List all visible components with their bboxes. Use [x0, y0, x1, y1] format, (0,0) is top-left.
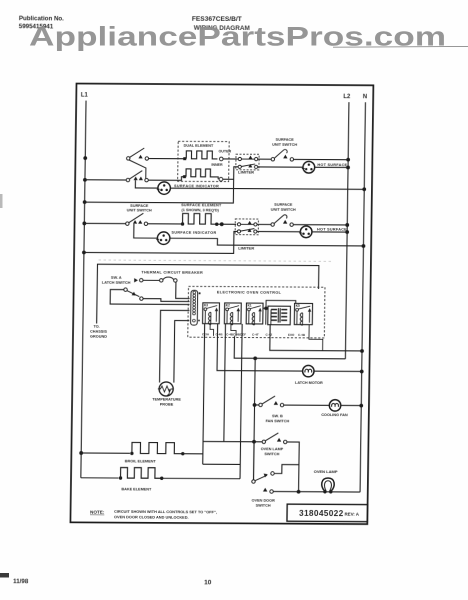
junction latch motor on N: [360, 370, 364, 374]
svg-text:SURFACE: SURFACE: [276, 138, 295, 142]
wire node down to N-feed lead: [265, 308, 267, 324]
svg-text:K3: K3: [204, 303, 208, 307]
heating element surface 2: [183, 213, 217, 224]
wire limiter 1 to switch 1b: [258, 158, 271, 160]
junction lamp drop on lamp row: [297, 490, 301, 494]
svg-text:HOT SURFACE: HOT SURFACE: [317, 228, 347, 232]
svg-text:SURFACE: SURFACE: [130, 204, 149, 208]
surface unit switch 2 contact: [126, 222, 129, 225]
junction on L1 broil wire: [79, 451, 83, 455]
wire door switch upper to lamp drop: [274, 465, 299, 474]
junction on L1 indicator 2 return: [82, 251, 86, 255]
limiter 1 upper right contact: [255, 158, 258, 161]
wire switch 2b to L2: [293, 224, 347, 226]
surface unit switch 1 upper right contact: [145, 157, 148, 160]
connector pins P1-P9: [193, 291, 196, 322]
svg-text:INNER: INNER: [211, 163, 223, 167]
limiter 2 upper arm: [241, 223, 254, 225]
wire connector pin 9 to probe lead 2: [174, 321, 189, 383]
limiter 1 lower arrow: [248, 164, 252, 167]
wire inner element to node: [215, 177, 218, 179]
junction switch 1b on L2: [346, 158, 350, 162]
relay K3: [203, 303, 220, 325]
wire inner node to return: [223, 178, 234, 180]
surface unit switch 2b left contact: [271, 223, 274, 226]
svg-text:SURFACE: SURFACE: [274, 203, 293, 207]
heating element outer: [186, 151, 217, 159]
surface unit switch 2b arrow: [283, 220, 287, 224]
wire switch 1b to L2: [294, 158, 349, 160]
svg-text:EXO: EXO: [288, 333, 295, 337]
temperature probe sensor: [158, 382, 174, 396]
svg-text:DUAL ELEMENT: DUAL ELEMENT: [184, 143, 214, 147]
relay K5: [294, 303, 312, 325]
wire latch contact to connector pin 4: [143, 299, 190, 302]
junction on L1 at surface sw 1 lower: [83, 178, 87, 182]
fan switch left contact: [259, 403, 262, 406]
wire sw2 to indicator 2: [134, 224, 158, 238]
svg-text:TEMPERATURE: TEMPERATURE: [152, 398, 181, 402]
svg-text:K5: K5: [296, 304, 300, 308]
oven lamp switch arrow: [277, 438, 281, 442]
limiter 1 upper arrow: [248, 156, 252, 159]
svg-text:SW. B: SW. B: [272, 414, 283, 418]
relay K2: [224, 303, 241, 325]
wire limiter 1 return to L1: [86, 166, 238, 203]
thermal breaker arrow: [134, 278, 138, 282]
transformer T1: [268, 306, 291, 325]
surface unit switch 1 linkage: [129, 160, 146, 179]
wire L1 to sw1 lower: [85, 179, 126, 181]
svg-text:NOTE:: NOTE:: [90, 510, 105, 515]
svg-text:SWITCH: SWITCH: [256, 503, 271, 507]
oven door switch arrow upper: [263, 474, 268, 478]
wire limiter 2 to hot surface 2: [257, 231, 300, 233]
scan smudge left edge: [0, 573, 9, 578]
wire relay lead jog b: [231, 324, 236, 336]
junction hot surface 2 on L2: [345, 230, 349, 234]
junction hot surface 1 on L2: [346, 166, 350, 170]
limiter 2 dashed enclosure: [235, 219, 258, 235]
svg-text:10: 10: [204, 579, 212, 586]
wire cooling fan to N: [341, 404, 362, 406]
thermal breaker mid contact: [160, 279, 163, 282]
wire L1 to sw2: [84, 222, 125, 224]
svg-text:K1: K1: [247, 304, 251, 308]
junction on L1 at surface sw 1 upper: [83, 156, 87, 160]
wire relay K1 lead to bake: [240, 324, 242, 479]
surface unit switch 1 upper arrow: [138, 155, 142, 159]
svg-text:LIMITER: LIMITER: [238, 169, 254, 174]
wire limiter 2 to switch 2b: [257, 223, 271, 225]
wire latch motor to N: [314, 370, 362, 372]
wire relay K3b lead to latch motor: [217, 324, 303, 371]
hot surface indicator 1 lamp: [302, 161, 315, 173]
limiter 1 upper arm: [241, 158, 254, 160]
inner element node: [219, 177, 223, 181]
broil element right node: [181, 452, 184, 455]
wire relay K5 lead jog: [309, 325, 323, 351]
svg-text:LATCH SWITCH: LATCH SWITCH: [102, 281, 131, 285]
junction element 2 output: [220, 222, 224, 226]
svg-text:CHASSIS: CHASSIS: [90, 330, 107, 334]
junction indicator 2 wire on N: [362, 244, 366, 248]
junction fan row on feed: [253, 403, 257, 407]
wire latch pivot to connector pin 5: [110, 290, 190, 305]
connector pin marker top: [199, 292, 201, 294]
cooling fan M2: [329, 400, 341, 411]
surface unit switch 1b left contact: [271, 158, 274, 161]
oven door switch pivot: [252, 480, 255, 483]
fan switch arm: [262, 396, 275, 404]
surface element 2 left node: [181, 222, 184, 225]
svg-text:N: N: [363, 94, 367, 100]
latch switch arrow: [132, 292, 137, 297]
heating element inner: [186, 169, 215, 177]
wire bake to relay K1 lead: [162, 477, 240, 479]
wire L1 to broil element: [81, 452, 130, 454]
surface indicator 2 lamp: [156, 232, 170, 244]
wire broil to relay K3 lead: [183, 453, 203, 455]
svg-text:UNIT SWITCH: UNIT SWITCH: [272, 143, 297, 147]
svg-text:PROBE: PROBE: [160, 403, 174, 407]
svg-text:L2: L2: [343, 94, 351, 100]
svg-text:C-3A: C-3A: [202, 332, 210, 336]
wire sw1 to indicator 1: [135, 180, 158, 188]
wire connector pin 7 to probe lead 1: [160, 310, 190, 382]
wire hot surface 2 to L2: [312, 231, 347, 233]
svg-text:OVEN DOOR CLOSED AND UNLOCKED.: OVEN DOOR CLOSED AND UNLOCKED.: [114, 514, 189, 519]
junction lamp row on feed: [252, 440, 256, 444]
fan switch arrow: [274, 401, 278, 405]
limiter 1 lower arm: [241, 164, 255, 167]
svg-text:C-4T: C-4T: [252, 333, 259, 337]
watermark underline right: [333, 45, 468, 48]
wire feed to fan switch: [255, 404, 259, 406]
wire N rail: [360, 102, 365, 492]
wire oven lamp row: [273, 491, 360, 494]
oven door switch lower contact: [270, 490, 273, 493]
surface unit switch 1 upper contact: [127, 157, 130, 160]
wire K1 to node: [263, 307, 266, 309]
wire limiter 1 to hot surface 1: [258, 166, 303, 168]
svg-text:OVEN LAMP: OVEN LAMP: [261, 447, 284, 451]
svg-text:11/98: 11/98: [13, 578, 29, 585]
oven door switch arrow lower: [263, 488, 267, 492]
junction transformer lead on N: [360, 349, 364, 353]
limiter 2 lower arm: [240, 229, 254, 232]
svg-text:OVEN DOOR: OVEN DOOR: [252, 499, 276, 503]
surface unit switch 1 lower arrow b: [139, 177, 143, 181]
electronic oven control dashed enclosure: [188, 286, 325, 338]
limiter 2 upper left contact: [237, 223, 240, 226]
wire fan switch to cooling fan: [284, 404, 330, 406]
junction switch 2b on L2: [345, 223, 349, 227]
wire bake feed jog: [203, 463, 241, 465]
relay K1: [246, 303, 263, 325]
surface element 2 right node: [215, 222, 218, 225]
part number box: [287, 504, 368, 522]
wire indicator 2 to N: [170, 238, 364, 246]
svg-text:318045022: 318045022: [299, 509, 344, 518]
svg-text:C-4B: C-4B: [215, 332, 223, 336]
limiter 2 lower left contact: [237, 230, 240, 233]
surface unit switch 1 lower contact: [126, 178, 129, 181]
wire chassis ground bus: [97, 264, 319, 325]
limiter 1 lower right contact: [254, 165, 257, 168]
surface unit switch 1b right contact: [290, 158, 293, 161]
wire breaker contacts: [143, 279, 160, 281]
control board connector strip: [191, 290, 198, 325]
wire element 2 to limiter 2: [217, 223, 237, 225]
limiter 1 dashed enclosure: [236, 154, 259, 170]
svg-text:SW. A: SW. A: [111, 276, 122, 280]
svg-text:OUTER: OUTER: [219, 149, 232, 153]
svg-text:DEF: DEF: [240, 332, 246, 336]
junction on L1 at surface sw 2: [82, 221, 86, 225]
wire sw2 to element 2: [148, 223, 182, 225]
wire L2 rail: [345, 102, 349, 359]
svg-text:UNIT SWITCH: UNIT SWITCH: [271, 208, 296, 212]
oven door switch upper contact: [271, 472, 274, 475]
wire relay lead jog a: [210, 324, 214, 336]
svg-text:SWITCH: SWITCH: [264, 452, 279, 456]
junction relay node: [264, 306, 268, 310]
hot surface indicator 2 lamp: [299, 226, 312, 238]
wire transformer lead to N: [270, 325, 363, 351]
schematic border frame: [70, 84, 373, 525]
outer element terminal pad left: [183, 157, 186, 160]
dual element dashed enclosure: [178, 141, 230, 181]
surface unit switch 2 right contact: [144, 222, 147, 225]
svg-text:C-4Z: C-4Z: [265, 333, 272, 337]
wire relay K2 lead to oven lamp row: [224, 324, 226, 442]
wire lamp switch to lamp drop: [286, 442, 299, 492]
heating element bake: [121, 468, 162, 479]
surface unit switch 2b arm: [274, 215, 287, 224]
limiter 1 upper left contact: [238, 157, 241, 160]
surface indicator 1 lamp: [157, 182, 171, 194]
wire L1 corner to bake element: [81, 477, 119, 479]
wire sw1 upper to dual element outer: [149, 157, 184, 159]
wire oven lamp row feed: [203, 440, 262, 442]
wire node over transformer to K5: [266, 300, 296, 308]
svg-text:FAN SWITCH: FAN SWITCH: [265, 419, 289, 423]
surface unit switch 2 arrow a: [133, 220, 137, 224]
latch switch contact: [140, 297, 143, 300]
wire oven feed drop: [254, 358, 256, 481]
svg-text:BROIL ELEMENT: BROIL ELEMENT: [125, 459, 157, 463]
svg-text:K2: K2: [226, 304, 230, 308]
thermal breaker bimetal arc: [163, 277, 174, 280]
limiter 2 upper arrow: [248, 221, 252, 224]
svg-text:C-4B: C-4B: [298, 333, 306, 337]
junction on L1 indicator 1 return: [83, 200, 87, 204]
surface unit switch 2b right contact: [290, 223, 293, 226]
surface unit switch 1b arrow: [283, 155, 287, 159]
svg-text:OVEN LAMP: OVEN LAMP: [314, 469, 338, 474]
svg-text:BAKE ELEMENT: BAKE ELEMENT: [121, 487, 152, 491]
wire sw1 lower to dual element inner: [148, 176, 184, 180]
junction indicator 1 wire on N: [362, 187, 366, 191]
wire relay K3 lead to broil: [203, 324, 205, 465]
connector pin marker bottom: [198, 320, 199, 322]
svg-text:ELECTRONIC OVEN CONTROL: ELECTRONIC OVEN CONTROL: [217, 290, 282, 294]
section separator (faint): [99, 260, 333, 261]
bake element right node: [160, 477, 163, 480]
svg-text:SURFACE ELEMENT: SURFACE ELEMENT: [181, 203, 222, 207]
fan switch right contact: [280, 403, 283, 406]
thermal breaker right contact: [174, 279, 177, 282]
wire hot surface 1 to L2: [315, 166, 348, 168]
surface unit switch 2 arrow b: [138, 220, 142, 224]
latch switch arm: [127, 291, 140, 297]
svg-text:SURFACE INDICATOR: SURFACE INDICATOR: [174, 184, 219, 188]
svg-text:LIMITER: LIMITER: [238, 246, 254, 251]
heating element broil: [132, 442, 183, 453]
surface unit switch 1 upper arm: [129, 148, 144, 158]
svg-text:UNIT SWITCH: UNIT SWITCH: [127, 208, 152, 212]
svg-text:COOLING FAN: COOLING FAN: [321, 413, 348, 417]
surface unit switch 1b arm: [274, 149, 287, 158]
svg-text:THERMAL CIRCUIT BREAKER: THERMAL CIRCUIT BREAKER: [141, 271, 203, 275]
thermal breaker left contact: [140, 279, 143, 282]
limiter 1 lower left contact: [238, 165, 241, 168]
limiter 2 lower arrow: [248, 229, 252, 232]
surface unit switch 1 lower arrow a: [134, 177, 138, 181]
surface unit switch 2 arm: [128, 213, 143, 223]
svg-text:REV: A: REV: A: [345, 511, 360, 516]
wire breaker to connector pin 3: [176, 282, 190, 298]
junction oven feed node: [253, 356, 257, 360]
outer element node: [219, 157, 223, 161]
svg-text:TO.: TO.: [93, 325, 99, 329]
svg-text:HOT SURFACE: HOT SURFACE: [317, 163, 347, 167]
surface unit switch 1 lower right contact: [145, 178, 148, 181]
surface unit switch 1 lower arm: [129, 171, 142, 180]
bake element left node: [119, 476, 122, 479]
svg-text:(1 SHOWN, 3 REQ'D): (1 SHOWN, 3 REQ'D): [182, 208, 220, 212]
wire outer node to limiter 1: [223, 158, 238, 160]
wire feed to door switch pivot: [253, 442, 256, 480]
wire indicator 1 to N: [170, 188, 364, 189]
wire relay K2b lead to L2 feed: [234, 336, 346, 359]
svg-text:GROUND: GROUND: [90, 335, 107, 339]
oven lamp switch right contact: [284, 440, 287, 443]
wire L1 rail: [81, 101, 86, 478]
wire limiter 2 return to L1: [86, 231, 238, 254]
inner element terminal pad left: [183, 175, 186, 178]
limiter 2 lower right contact: [254, 230, 257, 233]
oven lamp switch arm: [265, 433, 278, 441]
oven door switch arm: [255, 475, 267, 481]
oven lamp bulb: [322, 478, 335, 494]
svg-text:LATCH MOTOR: LATCH MOTOR: [295, 381, 323, 385]
svg-text:L1: L1: [81, 93, 89, 99]
svg-text:SURFACE INDICATOR: SURFACE INDICATOR: [171, 231, 216, 235]
limiter 2 upper right contact: [254, 223, 257, 226]
junction cooling fan on N: [359, 404, 363, 408]
latch motor M1: [303, 365, 315, 376]
latch switch pivot contact: [124, 288, 127, 291]
broil element left node: [130, 452, 133, 455]
oven lamp switch left contact: [262, 440, 265, 443]
